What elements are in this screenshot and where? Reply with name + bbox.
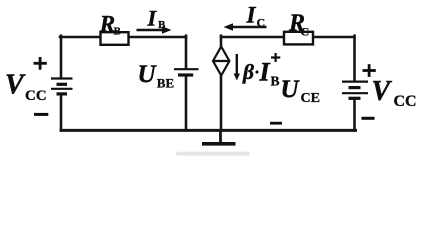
- svg-text:B: B: [271, 74, 280, 89]
- wire: left loop top: [60, 36, 186, 39]
- svg-text:CC: CC: [25, 88, 47, 104]
- label RC: [288, 11, 309, 39]
- label VCC right: [372, 76, 417, 110]
- ground bar: [202, 142, 236, 146]
- plus sign VCC left: [34, 57, 47, 70]
- svg-text:I: I: [259, 57, 271, 86]
- svg-text:I: I: [147, 5, 158, 30]
- svg-text:U: U: [138, 61, 158, 88]
- wire: current source branch lower: [220, 75, 223, 130]
- wire: right vertical (top to VCC2): [353, 36, 356, 80]
- label UCE: [281, 76, 320, 106]
- label RB: [99, 11, 122, 37]
- wire: UBE branch lower: [185, 76, 188, 130]
- wire: left vertical (VCC to top): [60, 36, 63, 78]
- minus sign VCC right: [362, 117, 375, 120]
- current arrow IC: [224, 23, 267, 31]
- wire: UBE branch upper: [185, 36, 188, 69]
- wire: bottom rail: [61, 129, 356, 132]
- label VCC left: [5, 70, 47, 105]
- resistor RC: [284, 32, 313, 45]
- battery V2 right VCC plates: [342, 82, 368, 99]
- svg-text:CC: CC: [394, 93, 417, 110]
- minus sign UCE: [270, 122, 282, 125]
- svg-text:B: B: [158, 19, 166, 31]
- wire: current source branch upper: [220, 36, 223, 48]
- wire: right vertical (VCC2 to bottom wire): [353, 100, 356, 131]
- svg-text:CE: CE: [301, 91, 320, 106]
- ground stub: [219, 130, 222, 141]
- svg-text:C: C: [301, 25, 310, 39]
- svg-text:β: β: [242, 60, 254, 84]
- svg-text:V: V: [5, 70, 26, 101]
- svg-text:V: V: [372, 76, 393, 107]
- plus sign VCC right: [363, 64, 376, 77]
- svg-text:I: I: [246, 3, 257, 28]
- svg-text:B: B: [114, 26, 122, 38]
- wire: left vertical (VCC to bottom wire): [60, 95, 63, 131]
- current source arrow (beta IB direction): [234, 54, 240, 81]
- label IC: [246, 3, 266, 30]
- svg-text:U: U: [281, 76, 301, 103]
- current arrow IB: [137, 26, 172, 34]
- wire: right loop top: [221, 36, 355, 39]
- svg-text:C: C: [257, 15, 266, 29]
- plus sign UCE: [271, 53, 280, 62]
- minus sign VCC left: [34, 113, 48, 116]
- label beta IB: [242, 57, 280, 88]
- battery V1 left VCC plates: [51, 79, 73, 94]
- label UBE: [138, 61, 175, 91]
- controlled current source U1 diamond: [213, 47, 229, 76]
- ground faint second bar: [176, 152, 250, 156]
- resistor RB: [101, 32, 129, 45]
- label IB: [147, 5, 167, 31]
- battery cell UBE plates: [174, 69, 199, 75]
- svg-text:BE: BE: [157, 76, 174, 91]
